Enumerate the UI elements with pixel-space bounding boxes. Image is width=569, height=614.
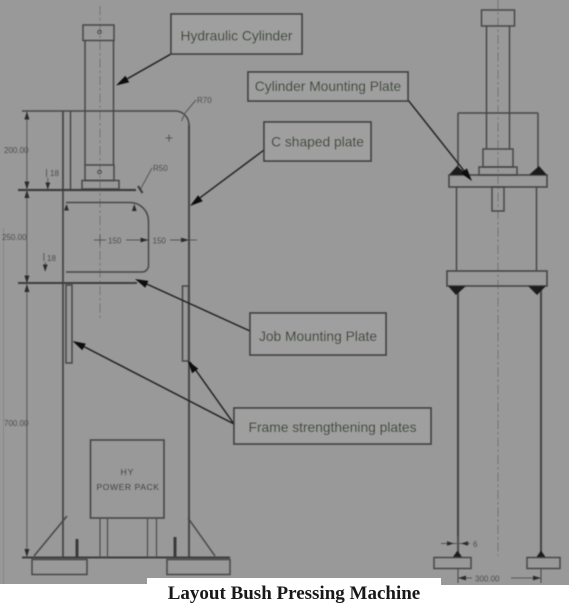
cylinder mounting plate top (front view) <box>18 189 136 191</box>
R70 leader <box>182 100 197 121</box>
column top edge (side view) <box>458 112 538 114</box>
anchor bolt right (front) <box>174 537 177 557</box>
frame strengthening plate left (front view) <box>66 285 72 363</box>
cylinder body (side view) <box>483 149 513 167</box>
C plate R70 corner <box>177 111 190 125</box>
frame strengthening plate right (front view) <box>183 286 189 361</box>
arc center cross <box>166 137 173 139</box>
leader: frame strengthening 1 <box>76 343 234 425</box>
leader: frame strengthening 2 <box>190 362 234 424</box>
weld triangles on side view plates <box>448 166 547 557</box>
300.00 dim line <box>458 577 472 579</box>
svg-text:200.00: 200.00 <box>4 146 29 155</box>
cylinder flange (side view) <box>479 167 517 175</box>
arrowhead: frame strengthening 2 <box>188 361 199 374</box>
C plate right edge <box>188 125 190 557</box>
svg-text:C shaped plate: C shaped plate <box>271 135 364 150</box>
power pack leg left <box>100 518 108 558</box>
label box: Frame strengthening plates <box>234 408 431 444</box>
label box: Cylinder Mounting Plate <box>248 72 408 101</box>
C plate left inner line <box>70 111 72 190</box>
svg-text:300.00: 300.00 <box>475 575 500 584</box>
dimension texts <box>2 96 500 584</box>
svg-text:Cylinder Mounting Plate: Cylinder Mounting Plate <box>255 79 402 94</box>
cylinder body center mark (front) <box>98 170 102 174</box>
150 dim arrows <box>141 238 149 243</box>
power pack leg right <box>148 518 157 558</box>
base top line (front view) <box>22 557 230 559</box>
right gusset <box>188 518 215 556</box>
R50 leader <box>140 168 152 190</box>
C cutout right edge <box>148 221 150 266</box>
left gusset <box>34 516 67 556</box>
side view centerline <box>497 0 499 556</box>
weld mark at left leg base <box>453 551 462 558</box>
arrowhead: hydraulic cylinder <box>116 76 129 86</box>
rod (side view) <box>486 26 488 149</box>
anchor bolt left (front) <box>76 539 79 557</box>
front view centerline <box>99 6 101 320</box>
label box: C shaped plate <box>264 122 371 161</box>
leader: hydraulic cylinder <box>119 54 171 84</box>
svg-text:POWER PACK: POWER PACK <box>97 482 160 492</box>
C plate left outer edge <box>62 111 64 557</box>
lower small fillet <box>142 266 149 272</box>
svg-text:150: 150 <box>153 237 167 246</box>
leader: job mounting plate <box>139 281 250 332</box>
left foot plate <box>32 560 87 575</box>
svg-text:Frame strengthening plates: Frame strengthening plates <box>249 420 417 435</box>
dimension arrowheads <box>24 112 541 581</box>
150 dim line left <box>94 239 106 241</box>
weld triangle upper-left <box>449 166 468 175</box>
R50 fillet upper <box>130 203 149 222</box>
svg-text:Layout Bush Pressing Machine: Layout Bush Pressing Machine <box>168 583 421 604</box>
18 dim arrows <box>45 183 50 190</box>
cylinder mounting plate (side view) <box>449 175 547 187</box>
svg-text:6: 6 <box>473 540 478 549</box>
column upper verticals (side view) <box>457 113 459 175</box>
leader: cylinder mounting plate <box>408 100 469 177</box>
svg-text:R50: R50 <box>153 164 168 173</box>
weld triangle lower-left <box>448 286 466 295</box>
svg-text:Hydraulic Cylinder: Hydraulic Cylinder <box>181 29 293 44</box>
18 dim #1 bracket <box>46 169 48 177</box>
6 dim arrows <box>447 541 454 545</box>
C shaped plate top edge (front view) <box>22 110 177 112</box>
stub below plate (side view) <box>492 187 504 211</box>
svg-text:150: 150 <box>108 237 122 246</box>
arrowhead: cylinder mounting plate <box>461 168 472 181</box>
6 dim (side view) <box>441 543 470 545</box>
dim arrows on vertical line <box>24 112 29 120</box>
left foot (side view) <box>434 558 471 569</box>
150 dim line right <box>170 239 188 241</box>
svg-text:250.00: 250.00 <box>2 233 27 242</box>
scan left edge artifact <box>3 228 5 584</box>
dim extension ticks below feet <box>457 569 459 583</box>
job mounting plate (side view) <box>447 271 547 286</box>
rod cap center mark (front) <box>98 30 102 34</box>
300 dim arrows <box>458 576 466 581</box>
hydraulic cylinder rod top cap (front view) <box>83 25 114 41</box>
rod top cap (side view) <box>482 10 515 26</box>
right foot (side view) <box>527 558 560 569</box>
arrowhead: C shaped plate <box>190 195 203 206</box>
arrowhead: job mounting plate <box>135 279 148 288</box>
cylinder body (front view) <box>85 165 114 181</box>
svg-text:700.00: 700.00 <box>4 419 29 428</box>
weld triangle upper-right <box>529 166 547 175</box>
HY power pack box <box>91 440 165 518</box>
column mid verticals (side view) <box>456 187 458 271</box>
svg-text:HY: HY <box>121 467 135 477</box>
weld triangle lower-right <box>528 286 546 295</box>
cylinder flange (front view) <box>82 181 119 190</box>
legs (side view) <box>457 286 459 558</box>
main vertical dimension line <box>26 111 28 558</box>
18 dim #2 bracket <box>43 253 45 261</box>
svg-text:Job Mounting Plate: Job Mounting Plate <box>259 329 377 344</box>
job mounting plate top (front view) <box>66 271 142 273</box>
weld mark at right leg base <box>537 551 546 558</box>
label box: Job Mounting Plate <box>250 313 386 355</box>
svg-text:18: 18 <box>50 169 59 178</box>
arrowhead: frame strengthening 1 <box>73 341 86 350</box>
job mounting plate bottom <box>18 282 137 284</box>
hydraulic cylinder rod (front view) <box>84 41 86 166</box>
label box: Hydraulic Cylinder <box>171 14 302 54</box>
right foot plate <box>167 560 230 575</box>
cylinder mounting plate bottom <box>66 202 130 204</box>
leader: C shaped plate <box>193 150 264 203</box>
svg-text:R70: R70 <box>197 96 212 105</box>
svg-text:18: 18 <box>47 254 56 263</box>
